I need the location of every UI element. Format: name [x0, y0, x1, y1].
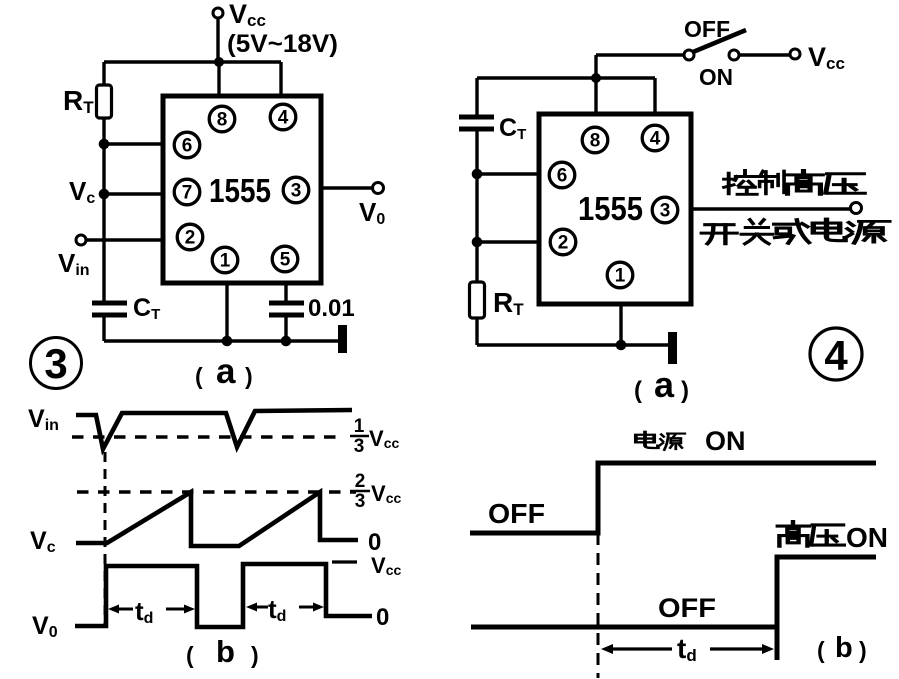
- wire junction to switch: [596, 53, 684, 56]
- svg-text:td: td: [677, 633, 697, 665]
- svg-text:b: b: [216, 634, 235, 669]
- terminal Vin: [76, 235, 86, 245]
- svg-text:4: 4: [650, 129, 661, 150]
- pin 7 (left IC): [174, 179, 200, 205]
- svg-text:ON: ON: [705, 426, 746, 456]
- pin 8 (left IC): [209, 106, 235, 132]
- switch S1 blade: [693, 30, 746, 52]
- wire CT to RT: [475, 129, 478, 282]
- label 控制高压 (control high voltage): [724, 171, 864, 195]
- wire pin 1 to rail: [225, 283, 228, 341]
- wire Vc node to pin 7: [104, 192, 163, 195]
- svg-text:Vcc: Vcc: [808, 42, 845, 73]
- trace high-voltage waveform: [471, 557, 876, 660]
- svg-text:Vin: Vin: [58, 248, 90, 279]
- svg-text:V0: V0: [32, 612, 58, 641]
- wire rail to pin 8: [217, 62, 220, 96]
- svg-text:ON: ON: [846, 522, 888, 553]
- trace Vc sawtooth: [76, 492, 358, 546]
- label (a) left: [195, 352, 253, 391]
- pin 4 (right IC): [642, 125, 668, 151]
- svg-text:8: 8: [217, 110, 228, 131]
- svg-text:OFF: OFF: [488, 498, 545, 529]
- svg-text:2: 2: [355, 471, 366, 492]
- svg-text:td: td: [268, 594, 286, 625]
- junction node to pin 6: [99, 139, 110, 150]
- svg-text:(: (: [186, 642, 194, 668]
- wire switch down to junction: [594, 55, 597, 78]
- svg-text:): ): [681, 377, 689, 404]
- wire node to pin 6: [477, 172, 539, 175]
- dashed level Vcc (V0): [332, 560, 357, 563]
- label fraction 2/3 Vcc: [350, 471, 401, 512]
- wire rail to pin 4: [653, 78, 656, 114]
- junction dot supply node: [591, 73, 601, 83]
- svg-text:): ): [859, 637, 867, 663]
- junction dot 0.01-rail: [281, 336, 292, 347]
- resistor RT (left circuit): [97, 85, 112, 118]
- ground (right circuit): [668, 332, 677, 364]
- label fraction 1/3 Vcc: [350, 416, 399, 457]
- trace V0 square wave: [75, 564, 372, 627]
- ground (left circuit): [338, 325, 347, 353]
- svg-text:): ): [251, 642, 259, 668]
- pin 1 (right IC): [607, 262, 633, 288]
- label 电源 ON (power ON): [636, 426, 746, 456]
- svg-text:8: 8: [590, 131, 601, 152]
- pin 6 (right IC): [549, 162, 575, 188]
- svg-text:Vin: Vin: [28, 405, 59, 434]
- svg-text:td: td: [135, 596, 153, 627]
- figure number 3: [31, 338, 82, 389]
- pin 5 (left IC): [272, 246, 298, 272]
- pin 3 (left IC): [283, 177, 309, 203]
- svg-text:1: 1: [220, 251, 231, 272]
- svg-text:OFF: OFF: [684, 16, 730, 42]
- svg-text:1555: 1555: [209, 172, 271, 209]
- wire Vcc terminal down to junction: [216, 18, 219, 62]
- label (b) left: [186, 634, 259, 669]
- svg-text:Vcc: Vcc: [371, 553, 401, 578]
- svg-text:Vc: Vc: [69, 176, 95, 207]
- terminal V0: [373, 183, 384, 194]
- dimension arrow td (right): [601, 644, 774, 654]
- svg-text:ON: ON: [699, 64, 733, 90]
- svg-text:OFF: OFF: [658, 593, 716, 623]
- junction dot to pin 6: [472, 169, 483, 180]
- svg-text:4: 4: [824, 332, 848, 379]
- wire RT to bottom rail: [475, 318, 478, 345]
- pin 8 (right IC): [582, 127, 608, 153]
- svg-text:1: 1: [615, 266, 626, 287]
- svg-text:3: 3: [44, 340, 67, 387]
- junction dot pin1-rail: [616, 340, 627, 351]
- wire pin 5 to cap 0.01: [284, 283, 287, 303]
- svg-text:RT: RT: [63, 85, 94, 117]
- terminal Vcc (right circuit): [790, 49, 800, 59]
- svg-text:3: 3: [355, 491, 366, 512]
- svg-text:b: b: [835, 632, 853, 664]
- wire pin 1 to rail: [619, 304, 622, 345]
- svg-text:RT: RT: [493, 287, 524, 319]
- pin 6 (left IC): [174, 132, 200, 158]
- wire pin 3 output: [321, 186, 372, 189]
- dashed timing line vertical: [104, 452, 107, 624]
- wire switch to Vcc terminal: [739, 53, 790, 56]
- label 开关或电源 (switch or power supply): [702, 219, 889, 244]
- wire pin 3 output: [691, 207, 851, 210]
- trace Vin waveform: [76, 410, 352, 449]
- svg-text:): ): [245, 363, 253, 389]
- pin 2 (right IC): [550, 229, 576, 255]
- resistor RT (right circuit): [470, 282, 485, 318]
- wire RT bottom to CT: [102, 118, 105, 303]
- junction node Vc: [99, 189, 110, 200]
- dashed level 1/3 Vcc: [72, 435, 340, 438]
- wire Vin to pin 2: [86, 238, 163, 241]
- svg-text:3: 3: [354, 436, 365, 457]
- terminal output (right circuit): [851, 203, 862, 214]
- svg-text:CT: CT: [499, 114, 526, 143]
- op IC 1555 box U1: [163, 96, 321, 283]
- svg-text:a: a: [216, 352, 236, 391]
- switch S1 pole contact: [684, 50, 694, 60]
- label (b) right: [817, 632, 867, 664]
- pin 2 (left IC): [177, 224, 203, 250]
- dimension arrow td first: [108, 605, 195, 614]
- junction dot to pin 2: [472, 237, 483, 248]
- svg-text:1555: 1555: [578, 190, 643, 227]
- wire rail to pin 8: [594, 78, 597, 114]
- wire rail to pin 4: [279, 62, 282, 96]
- pin 4 (left IC): [270, 104, 296, 130]
- dimension arrow td second: [246, 603, 324, 612]
- svg-text:2: 2: [185, 228, 196, 249]
- svg-text:4: 4: [278, 108, 289, 129]
- dashed level 2/3 Vcc: [77, 490, 356, 493]
- label 高压 ON (high voltage ON): [778, 522, 888, 553]
- svg-text:0.01: 0.01: [308, 295, 355, 322]
- junction dot at Vcc rail: [214, 57, 224, 67]
- svg-text:Vcc: Vcc: [369, 426, 399, 451]
- svg-text:6: 6: [557, 166, 568, 187]
- svg-text:(: (: [195, 363, 203, 389]
- wire node to pin 6: [104, 142, 163, 145]
- wire rail down to CT: [475, 78, 478, 117]
- svg-text:Vcc: Vcc: [229, 0, 266, 30]
- op IC 1555 box U2: [539, 114, 691, 304]
- svg-text:Vc: Vc: [30, 527, 56, 556]
- svg-text:Vcc: Vcc: [371, 481, 401, 506]
- wire 0.01 to rail: [284, 315, 287, 341]
- svg-text:2: 2: [558, 233, 569, 254]
- wire bottom ground rail: [104, 339, 342, 342]
- svg-text:5: 5: [280, 250, 291, 271]
- svg-text:a: a: [654, 364, 675, 405]
- switch S1 throw contact: [729, 50, 739, 60]
- svg-text:3: 3: [291, 181, 302, 202]
- wire top supply rail: [104, 60, 281, 63]
- svg-text:1: 1: [354, 416, 365, 437]
- wire bottom rail to ground: [477, 343, 668, 346]
- capacitor CT (left circuit): [92, 303, 127, 315]
- wire rail down to RT top: [102, 62, 105, 85]
- dashed timing line vertical (right): [597, 533, 600, 678]
- svg-text:CT: CT: [133, 294, 160, 323]
- pin 3 (right IC): [652, 197, 678, 223]
- wire node to pin 2: [477, 240, 539, 243]
- svg-text:(5V~18V): (5V~18V): [227, 30, 338, 58]
- svg-text:3: 3: [660, 201, 671, 222]
- junction dot pin1-rail: [222, 336, 233, 347]
- svg-text:(: (: [634, 377, 642, 404]
- svg-text:(: (: [817, 637, 825, 663]
- capacitor 0.01: [269, 303, 304, 315]
- wire supply rail: [477, 76, 655, 79]
- svg-text:V0: V0: [359, 197, 385, 228]
- svg-text:6: 6: [182, 136, 193, 157]
- wire CT bottom to ground rail: [102, 315, 105, 341]
- svg-text:7: 7: [182, 183, 193, 204]
- pin 1 (left IC): [212, 247, 238, 273]
- svg-text:0: 0: [368, 529, 381, 556]
- capacitor CT (right circuit): [459, 117, 494, 129]
- trace power waveform: [470, 463, 876, 533]
- terminal Vcc (left circuit): [213, 8, 223, 18]
- figure number 4: [810, 328, 862, 380]
- svg-text:0: 0: [376, 604, 389, 631]
- label (a) right: [634, 364, 689, 405]
